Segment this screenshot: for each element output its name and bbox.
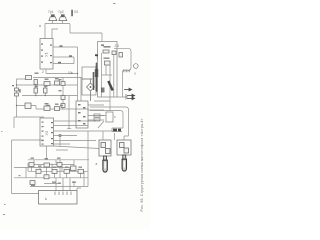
svg-text:у: у: [97, 55, 99, 59]
svg-text:Х3: Х3: [74, 10, 78, 14]
svg-text:У2: У2: [44, 130, 49, 136]
svg-text:к: к: [135, 72, 137, 76]
svg-text:2: 2: [42, 70, 44, 74]
svg-text:а: а: [96, 162, 98, 166]
svg-text:У1: У1: [44, 51, 49, 57]
svg-text:а: а: [39, 24, 41, 28]
svg-text:х: х: [114, 115, 116, 119]
svg-text:Ь: Ь: [45, 197, 47, 201]
svg-text:2,3: 2,3: [115, 44, 120, 48]
svg-text:10к: 10к: [68, 71, 74, 75]
svg-text:Гр1: Гр1: [49, 10, 54, 14]
svg-text:Гр2: Гр2: [59, 10, 64, 14]
svg-text:Рис. 98. Структурная схема маг: Рис. 98. Структурная схема магнитофона «…: [140, 118, 144, 211]
